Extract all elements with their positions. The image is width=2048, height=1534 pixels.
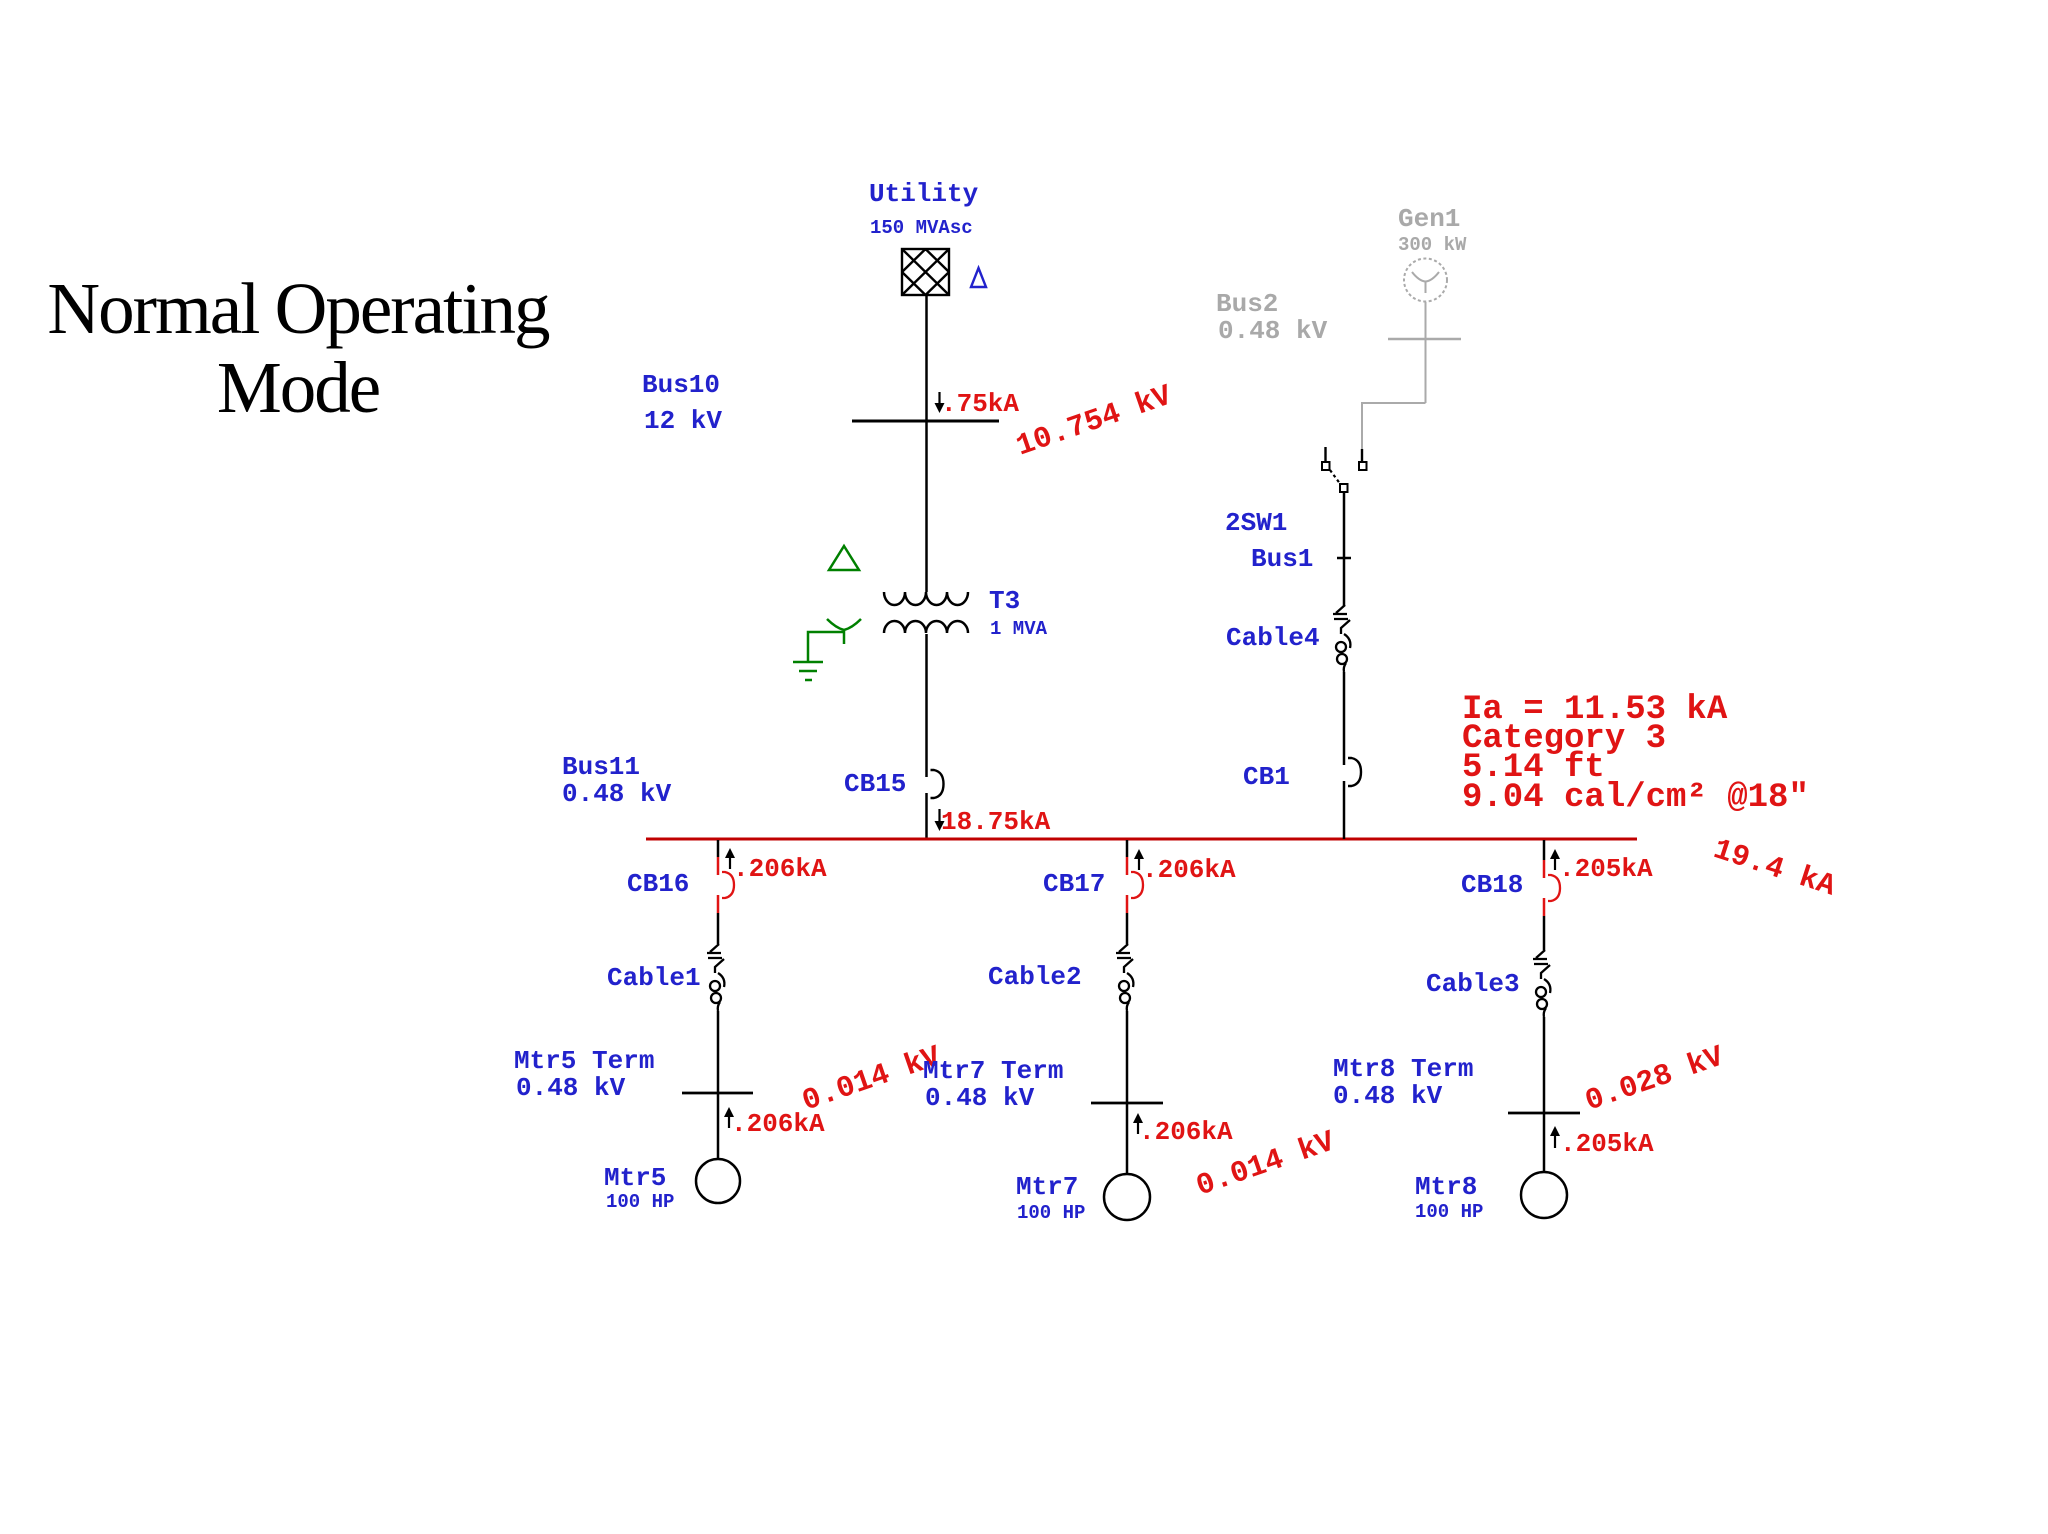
svg-text:Mtr5 Term: Mtr5 Term [514, 1046, 654, 1076]
CB18 red lower lead [1543, 898, 1546, 916]
svg-text:Gen1: Gen1 [1398, 204, 1460, 234]
slide title [0, 269, 596, 427]
bus Mtr5 terminal bar [682, 1092, 753, 1095]
circuit breaker CB16 arc (red) [722, 872, 734, 898]
svg-text:Mtr5: Mtr5 [604, 1163, 666, 1193]
wire Cable4 to CB1 [1343, 672, 1346, 765]
flow arrow up at Mtr7 terminal [1133, 1113, 1143, 1134]
wire switch to Cable4 [1343, 493, 1346, 606]
generator Gen1 symbol (gray circle) [1404, 259, 1447, 302]
transformer T3 primary coil [884, 592, 968, 605]
ground wire (green) [808, 632, 844, 662]
green delta winding marker [829, 546, 859, 570]
wire Cable2 to Mtr7 terminal [1126, 1011, 1129, 1103]
svg-text:Mtr7: Mtr7 [1016, 1172, 1078, 1202]
bus Mtr8 terminal bar [1508, 1112, 1580, 1115]
circuit breaker CB18 arc (red) [1548, 875, 1560, 901]
flow arrow down at Bus10 [935, 392, 945, 413]
svg-text:.205kA: .205kA [1559, 854, 1653, 884]
svg-text:100 HP: 100 HP [1017, 1202, 1085, 1224]
svg-text:Bus2: Bus2 [1216, 289, 1278, 319]
svg-text:Mtr8: Mtr8 [1415, 1172, 1477, 1202]
svg-text:Cable1: Cable1 [607, 963, 701, 993]
bus Mtr7 terminal bar [1091, 1102, 1163, 1105]
switch 2SW1 right pole stub [1361, 449, 1363, 462]
svg-text:Mtr7 Term: Mtr7 Term [923, 1056, 1063, 1086]
svg-text:CB15: CB15 [844, 769, 906, 799]
circuit breaker CB17 arc (red) [1131, 872, 1143, 898]
switch 2SW1 lower terminal [1340, 484, 1348, 492]
transformer wye grounding symbol (green) [827, 619, 861, 644]
svg-text:.206kA: .206kA [1139, 1117, 1233, 1147]
wire Bus10 to transformer [925, 421, 928, 592]
wire terminal to Mtr5 [717, 1093, 720, 1159]
svg-text:0.48 kV: 0.48 kV [1333, 1081, 1443, 1111]
switch 2SW1 blade (dotted, open) [1330, 470, 1341, 485]
svg-text:0.48 kV: 0.48 kV [925, 1083, 1035, 1113]
cable Cable4 symbol [1333, 605, 1350, 672]
bus Bus2 bar (gray) [1388, 338, 1461, 341]
flow arrow up at CB18 [1550, 849, 1560, 870]
wire CB17 to Cable2 [1126, 913, 1129, 944]
switch 2SW1 left terminal [1322, 462, 1330, 470]
CB17 red upper lead [1126, 857, 1129, 875]
cable Cable2 symbol [1116, 944, 1133, 1011]
svg-text:0.48 kV: 0.48 kV [516, 1073, 626, 1103]
wire CB16 to Cable1 [717, 913, 720, 944]
wire Bus11 to CB18 [1543, 840, 1546, 860]
motor Mtr5 circle [696, 1159, 740, 1203]
svg-text:Cable2: Cable2 [988, 962, 1082, 992]
svg-text:0.48 kV: 0.48 kV [1218, 316, 1328, 346]
switch 2SW1 right terminal [1359, 462, 1367, 470]
wire transformer to CB15 [925, 634, 928, 777]
cable Cable1 symbol [707, 944, 724, 1011]
svg-text:Cable4: Cable4 [1226, 623, 1320, 653]
svg-text:CB1: CB1 [1243, 762, 1290, 792]
svg-text:1 MVA: 1 MVA [990, 618, 1048, 640]
motor Mtr8 circle [1521, 1172, 1567, 1218]
svg-text:CB18: CB18 [1461, 870, 1523, 900]
bus Bus11 (red bar) [646, 838, 1637, 841]
svg-text:.206kA: .206kA [733, 854, 827, 884]
wire CB15 to Bus11 [925, 793, 928, 839]
svg-text:Cable3: Cable3 [1426, 969, 1520, 999]
flow arrow up at CB16 [725, 848, 735, 869]
svg-text:T3: T3 [989, 586, 1020, 616]
svg-text:150 MVAsc: 150 MVAsc [870, 217, 973, 239]
wire CB18 to Cable3 [1543, 916, 1546, 950]
bus Bus1 tick [1337, 557, 1351, 560]
svg-text:CB16: CB16 [627, 869, 689, 899]
wire jog Bus2 to switch (gray) [1362, 403, 1426, 449]
svg-text:100 HP: 100 HP [606, 1191, 674, 1213]
svg-text:.75kA: .75kA [941, 389, 1019, 419]
wire CB1 to Bus11 [1343, 781, 1346, 839]
transformer T3 secondary coil [884, 621, 968, 633]
svg-text:19.4 kA: 19.4 kA [1709, 833, 1839, 904]
bus Bus10 bar [852, 420, 999, 423]
flow arrow up at Mtr8 terminal [1550, 1126, 1560, 1148]
ground symbol (green) [793, 662, 823, 680]
wire terminal to Mtr7 [1126, 1103, 1129, 1174]
svg-text:Bus10: Bus10 [642, 370, 720, 400]
wire Bus11 to CB16 [717, 840, 720, 857]
motor Mtr7 circle [1104, 1174, 1150, 1220]
wire Gen1 to Bus2 (gray) [1425, 302, 1427, 403]
svg-text:100 HP: 100 HP [1415, 1201, 1483, 1223]
flow arrow up at Mtr5 terminal [724, 1107, 734, 1128]
svg-text:Bus1: Bus1 [1251, 544, 1313, 574]
svg-text:18.75kA: 18.75kA [941, 807, 1051, 837]
svg-text:Utility: Utility [869, 179, 979, 209]
wire Cable3 to Mtr8 terminal [1543, 1017, 1546, 1113]
wire terminal to Mtr8 [1543, 1113, 1546, 1172]
svg-text:Mtr8 Term: Mtr8 Term [1333, 1054, 1473, 1084]
svg-text:10.754 kV: 10.754 kV [1012, 380, 1176, 465]
CB16 red upper lead [717, 857, 720, 875]
wire Bus11 to CB17 [1126, 840, 1129, 857]
CB17 red lower lead [1126, 895, 1129, 913]
switch 2SW1 left pole stub [1324, 447, 1326, 462]
circuit breaker CB1 arc [1348, 758, 1361, 786]
cable Cable3 symbol [1533, 950, 1550, 1017]
flow arrow down at Bus11 feed [935, 809, 945, 831]
flow arrow up at CB17 [1134, 849, 1144, 870]
CB18 red upper lead [1543, 860, 1546, 878]
svg-text:CB17: CB17 [1043, 869, 1105, 899]
svg-text:0.48 kV: 0.48 kV [562, 779, 672, 809]
svg-text:.206kA: .206kA [1142, 855, 1236, 885]
svg-text:Bus11: Bus11 [562, 752, 640, 782]
wire utility to Bus10 [925, 295, 928, 421]
svg-text:9.04 cal/cm² @18": 9.04 cal/cm² @18" [1462, 779, 1809, 817]
svg-text:2SW1: 2SW1 [1225, 508, 1287, 538]
svg-text:0.028 kV: 0.028 kV [1581, 1040, 1728, 1119]
circuit breaker CB15 arc [931, 770, 944, 798]
svg-text:300 kW: 300 kW [1398, 234, 1467, 256]
svg-text:12 kV: 12 kV [644, 406, 722, 436]
utility delta winding marker (blue) [971, 268, 986, 287]
svg-text:.205kA: .205kA [1560, 1129, 1654, 1159]
wire Cable1 to Mtr5 terminal [717, 1011, 720, 1093]
utility source symbol (crosshatched square) [902, 249, 949, 295]
CB16 red lower lead [717, 895, 720, 913]
